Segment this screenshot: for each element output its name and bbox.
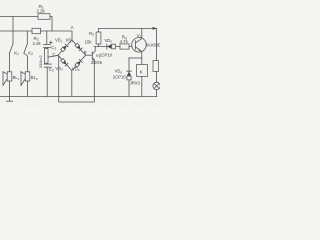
coil box 330k xyxy=(44,49,48,64)
wire xyxy=(156,72,158,83)
plus mark C1 xyxy=(50,41,53,44)
diode VD4 xyxy=(75,60,83,68)
resistor R4 xyxy=(120,44,129,49)
diode VD3 xyxy=(60,58,68,66)
wire bridge right vertex to V1 base xyxy=(86,54,93,56)
wire BL1 to ground rail xyxy=(9,81,11,97)
diode VD1 xyxy=(60,44,68,52)
ground xyxy=(9,97,11,102)
wire switch K1 drop xyxy=(12,17,14,45)
wire V2 emitter node xyxy=(129,57,142,59)
switch K2 xyxy=(24,44,28,53)
wire rail B to bridge top xyxy=(41,31,72,40)
wire C2 to ground rail xyxy=(46,67,48,96)
right branch wire xyxy=(156,29,158,61)
node C wire to bridge left vertex xyxy=(48,55,58,57)
capacitor C2 xyxy=(44,63,51,65)
wire rail B left xyxy=(0,30,32,32)
resistor R2 xyxy=(32,28,41,33)
lamp xyxy=(153,82,160,89)
wire rail B to C1 xyxy=(46,31,48,44)
wire box to C2 xyxy=(46,62,48,65)
switch K1 xyxy=(9,44,13,53)
wire to speaker BL2 xyxy=(24,53,28,72)
arrow at rail end xyxy=(153,27,157,30)
resistor right branch xyxy=(153,61,158,72)
wire bridge bottom vertex to ground rail xyxy=(71,71,73,97)
speaker BL1 xyxy=(7,72,12,81)
diode VD2 xyxy=(75,43,83,51)
wire K to ground rail xyxy=(141,77,143,97)
top rail right xyxy=(99,28,157,30)
transistor V1 xyxy=(91,52,93,60)
speaker BL2 xyxy=(25,72,30,81)
diode VD6 branch xyxy=(128,58,130,97)
diode VD5 xyxy=(106,44,108,49)
wire bridge left vertex detour to V1 emitter xyxy=(58,55,94,102)
resistor R3 xyxy=(98,29,100,33)
wire BL2 to ground rail xyxy=(27,81,29,97)
capacitor C1 xyxy=(44,43,51,45)
wire R1 to node xyxy=(50,17,52,32)
wire lamp to ground rail xyxy=(156,90,158,97)
wire to speaker BL1 xyxy=(9,53,11,72)
wire rail A top-left xyxy=(0,16,38,18)
ground rail xyxy=(0,96,157,98)
resistor R1 xyxy=(38,14,50,20)
wire C1 to coil box xyxy=(46,48,48,49)
wire switch K2 drop xyxy=(26,31,28,44)
signal line to V2 base xyxy=(94,46,132,48)
transistor V2 xyxy=(132,38,147,53)
relay K coil xyxy=(141,58,143,65)
bridge diamond wires xyxy=(58,40,86,71)
